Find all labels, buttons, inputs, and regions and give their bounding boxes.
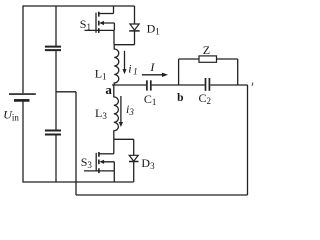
transistor S1 source down	[113, 30, 115, 44]
diode D3 lower lead	[133, 162, 135, 183]
current i1 arrow	[124, 51, 126, 71]
diode D3 upper lead	[133, 139, 135, 155]
svg-text:S1: S1	[80, 17, 91, 32]
svg-text:b: b	[177, 92, 183, 104]
diode D3 triangle	[129, 155, 138, 161]
diode D1 lower lead	[134, 31, 136, 45]
wire Z left branch	[178, 59, 180, 85]
svg-text:D1: D1	[147, 22, 160, 37]
svg-text:i1: i1	[128, 62, 137, 77]
wire left leg lower	[22, 102, 24, 183]
svg-text:L3: L3	[95, 106, 107, 121]
diode D1 upper lead	[134, 6, 136, 24]
svg-text:S3: S3	[81, 155, 93, 170]
wire node a to C1	[112, 84, 146, 86]
capacitor C2 right plate	[208, 78, 210, 91]
transistor S3 drain stub	[99, 153, 114, 155]
diode D3 bar	[129, 161, 139, 163]
svg-text:I: I	[149, 60, 155, 74]
diode D1 bar	[129, 30, 140, 32]
transistor S3 gate lead and source stub	[84, 170, 114, 172]
transistor S3 channel segments	[98, 152, 100, 173]
wire Z top right	[217, 58, 238, 60]
impedance Z box	[199, 56, 217, 62]
transistor S3 body stub	[103, 162, 115, 171]
svg-text:Z: Z	[203, 43, 210, 57]
transistor S1 drain up	[113, 6, 115, 14]
transistor S3 gate bar	[95, 153, 97, 171]
wire C2 to right rail	[210, 84, 247, 86]
svg-text:C1: C1	[144, 92, 157, 107]
wire capacitor leg upper	[55, 6, 57, 46]
transistor S3 source down	[113, 171, 115, 182]
inductor L3	[114, 85, 119, 139]
svg-text:Uin: Uin	[3, 108, 19, 123]
inductor L1	[114, 45, 119, 85]
capacitor bus bottom plate A	[45, 130, 61, 132]
capacitor C2 left plate	[205, 78, 207, 91]
current I arrow	[142, 74, 163, 76]
wire return vertical	[75, 92, 77, 195]
wire capacitor leg lower	[55, 136, 57, 183]
wire midpoint tap	[56, 91, 76, 93]
wire top rail	[23, 5, 135, 7]
wire S1 source to D1	[114, 44, 135, 46]
capacitor bus bottom plate B	[45, 134, 61, 136]
capacitor bus top plate A	[45, 46, 61, 48]
svg-text:L1: L1	[95, 66, 107, 81]
diode D1 triangle	[130, 24, 139, 30]
battery Uin long plate	[9, 93, 36, 95]
wire C1 to C2	[152, 84, 205, 86]
capacitor bus top plate B	[45, 49, 61, 51]
transistor S1 body arrow	[99, 21, 104, 25]
svg-text:D3: D3	[141, 156, 155, 171]
transistor S3 body arrow	[99, 160, 104, 164]
wire bottom rail	[22, 181, 133, 183]
current i3 arrow	[120, 96, 122, 123]
svg-text:C2: C2	[199, 91, 212, 106]
wire capacitor leg middle	[55, 51, 57, 130]
transistor S1 channel segments	[98, 12, 100, 33]
transistor S1 drain stub	[99, 13, 114, 15]
svg-text:a: a	[105, 82, 112, 97]
capacitor C1 left plate	[146, 80, 148, 90]
wire Z right branch	[237, 59, 239, 85]
transistor S1 gate lead and source stub	[85, 29, 115, 31]
wire Z top left	[179, 58, 199, 60]
wire L3 bottom to D3	[114, 138, 134, 140]
transistor S3 drain up	[113, 139, 115, 154]
capacitor C1 right plate	[150, 80, 152, 90]
transistor S1 gate bar	[95, 13, 97, 33]
svg-text:i3: i3	[126, 102, 134, 117]
transistor S1 body stub	[103, 23, 115, 30]
wire left leg upper	[22, 5, 24, 93]
wire right rail	[247, 85, 249, 195]
battery Uin short plate	[14, 99, 30, 102]
wire return bottom	[76, 194, 248, 196]
edge artifact right	[251, 83, 254, 86]
